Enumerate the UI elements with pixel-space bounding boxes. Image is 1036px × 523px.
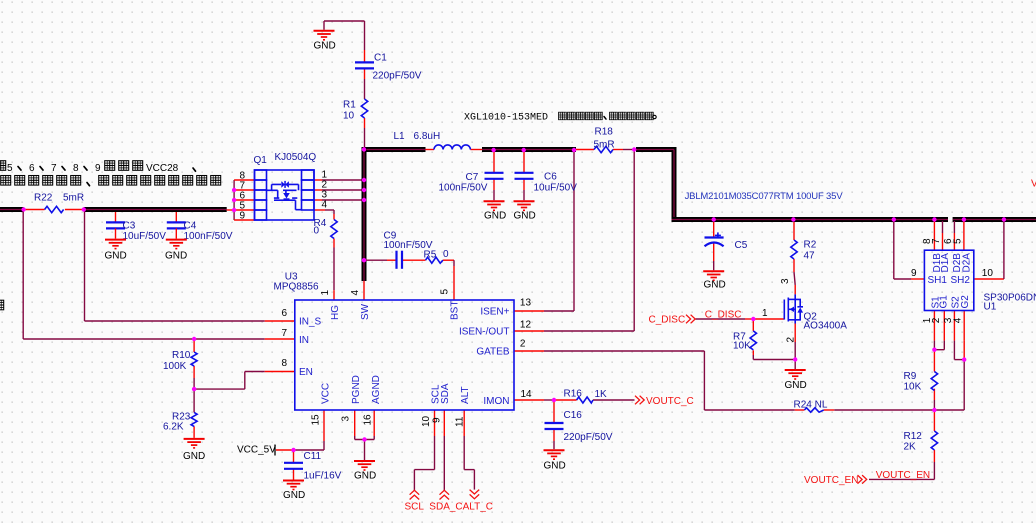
wire C_DISC to Q2 gate — [696, 318, 785, 320]
port VOUTC_EN — [804, 475, 867, 486]
svg-text:BST: BST — [449, 301, 460, 320]
wire C9 tap from SW bar to R5 to BST — [366, 260, 454, 300]
junction SW corner — [362, 147, 366, 151]
svg-text:R10: R10 — [172, 350, 191, 361]
wire R18 segment — [576, 149, 636, 151]
svg-text:47: 47 — [804, 251, 816, 262]
svg-text:2: 2 — [520, 338, 526, 349]
svg-text:10K: 10K — [733, 341, 751, 352]
thick bus bar output rail segment D1 — [672, 217, 949, 222]
thick bus bar VCC28 right segment to Q1 — [84, 207, 227, 212]
svg-text:3: 3 — [780, 278, 791, 284]
annotation XGL1010 note — [464, 112, 656, 123]
svg-text:GND: GND — [183, 451, 205, 462]
resistor R9 — [904, 371, 938, 393]
wire ISEN- sense — [515, 151, 635, 331]
junction PGND AGND — [362, 437, 366, 441]
svg-text:D1A: D1A — [940, 253, 951, 273]
port SCL — [405, 490, 425, 512]
svg-text:IN: IN — [299, 335, 309, 346]
svg-text:2K: 2K — [904, 442, 917, 453]
svg-text:9: 9 — [239, 211, 245, 222]
junction Q2 source — [793, 357, 797, 361]
svg-text:C7: C7 — [466, 172, 479, 183]
svg-text:10: 10 — [421, 415, 432, 427]
thick bus bar inductor output — [482, 147, 576, 152]
svg-text:ALT: ALT — [460, 386, 471, 404]
svg-text:2: 2 — [786, 337, 797, 343]
wire R10 leg and EN — [194, 339, 295, 389]
capacitor C3 — [106, 212, 166, 242]
svg-text:5: 5 — [440, 289, 451, 295]
svg-text:11: 11 — [455, 416, 466, 427]
thick bus bar after R18 with corner down — [636, 147, 677, 222]
svg-text:G2: G2 — [960, 295, 971, 309]
svg-text:D2A: D2A — [962, 253, 973, 273]
port VOUTC_C — [635, 396, 694, 407]
junction IMON C16 — [552, 398, 556, 402]
ground C4 — [165, 240, 187, 262]
capacitor C5 polarized — [705, 232, 748, 251]
ground R23 — [183, 439, 205, 462]
svg-text:C3: C3 — [123, 221, 136, 232]
svg-text:GATEB: GATEB — [476, 347, 509, 358]
svg-text:1K: 1K — [595, 389, 608, 400]
wire SCL — [414, 410, 434, 490]
svg-text:7: 7 — [51, 163, 57, 174]
svg-text:C16: C16 — [564, 410, 583, 421]
svg-text:IMON: IMON — [483, 396, 509, 407]
svg-text:ISEN+: ISEN+ — [480, 307, 509, 318]
svg-text:7: 7 — [281, 328, 287, 339]
wire ALT — [464, 410, 474, 490]
resistor R18 — [594, 127, 615, 153]
ground C16 — [544, 450, 566, 471]
svg-text:4: 4 — [952, 317, 963, 323]
wire IN from VCC28 — [23, 211, 295, 339]
resistor R10 — [163, 350, 197, 372]
wire GATEB to R24 net — [515, 351, 935, 410]
svg-text:7: 7 — [931, 238, 942, 244]
svg-text:C1: C1 — [374, 53, 387, 64]
wire C6 tap — [523, 152, 525, 200]
svg-text:R16: R16 — [564, 389, 583, 400]
svg-text:C6: C6 — [544, 172, 557, 183]
svg-text:1: 1 — [320, 290, 331, 296]
svg-text:VCC: VCC — [320, 383, 331, 404]
svg-text:R24 NL: R24 NL — [794, 400, 828, 411]
wire Q1 right pins 1 2 3 to SW bar — [314, 180, 362, 200]
svg-text:C11: C11 — [304, 451, 322, 462]
junction R10 bottom EN — [192, 387, 196, 391]
port C_DISC — [649, 315, 696, 326]
wire G2 down to R24 node — [934, 360, 964, 410]
wire R12 to VOUTC_EN — [869, 410, 934, 479]
svg-text:6: 6 — [29, 163, 35, 174]
svg-text:G1: G1 — [939, 295, 950, 309]
junction R9 R12 R24 node — [932, 408, 936, 412]
wire R23 leg — [193, 389, 195, 438]
wire Q1 pin4 to R4 to HG — [314, 210, 334, 300]
svg-text:VOUTC_EN: VOUTC_EN — [876, 470, 930, 481]
svg-text:SH1: SH1 — [928, 275, 948, 286]
wire VCC_5V to VCC pin — [276, 410, 324, 450]
svg-text:SW: SW — [360, 303, 371, 320]
svg-text:10: 10 — [982, 268, 994, 279]
wire SH2 — [974, 221, 1004, 279]
svg-text:IN_S: IN_S — [299, 317, 322, 328]
svg-text:5: 5 — [952, 238, 963, 244]
svg-text:10: 10 — [343, 111, 355, 122]
svg-text:U1: U1 — [984, 302, 997, 313]
wire R22 segment — [24, 209, 84, 211]
wire Q1 left pin stubs 8 7 6 5 9 — [234, 180, 254, 220]
resistor R7 — [733, 331, 757, 352]
svg-text:HG: HG — [330, 305, 341, 320]
svg-text:220pF/50V: 220pF/50V — [373, 71, 422, 82]
svg-text:6: 6 — [281, 308, 287, 319]
svg-text:V: V — [1031, 179, 1036, 190]
svg-text:SCL: SCL — [405, 502, 425, 513]
inductor L1 — [394, 131, 471, 150]
svg-text:GND: GND — [514, 211, 536, 222]
wire Q2 source to GND — [794, 324, 796, 370]
junctions on output rail — [712, 217, 716, 221]
svg-text:Q1: Q1 — [254, 155, 268, 166]
wire U1 top pins 8 7 6 5 — [934, 221, 964, 250]
svg-text:GND: GND — [105, 251, 127, 262]
svg-text:5: 5 — [7, 163, 13, 174]
svg-text:5mR: 5mR — [63, 193, 84, 204]
svg-text:R9: R9 — [904, 371, 917, 382]
svg-text:GND: GND — [544, 461, 566, 472]
svg-text:4: 4 — [350, 290, 361, 296]
svg-text:10uF/50V: 10uF/50V — [534, 183, 578, 194]
junction VCC_5V C11 — [291, 448, 295, 452]
wire C7 tap — [493, 152, 495, 200]
junction U1 S1 G1 — [932, 348, 936, 352]
svg-text:XGL1010-153MED: XGL1010-153MED — [464, 113, 548, 124]
ground C5 — [703, 271, 726, 290]
svg-text:GND: GND — [283, 490, 305, 501]
junction R10 top — [192, 337, 196, 341]
power port VCC_5V — [237, 445, 276, 456]
junction C9 tap on SW bar — [362, 258, 366, 262]
svg-text:10uF/50V: 10uF/50V — [123, 231, 167, 242]
svg-text:AGND: AGND — [371, 375, 382, 404]
junctions Q1 left tie — [232, 188, 236, 192]
ground C7 — [484, 201, 507, 221]
wire C1 bottom to R1 to SW bar — [364, 68, 366, 149]
svg-text:GND: GND — [704, 280, 726, 291]
wire R9 leg — [933, 350, 935, 410]
ground C11 — [283, 481, 305, 502]
wire L1 stubs — [426, 149, 483, 151]
svg-text:9: 9 — [432, 417, 443, 423]
svg-text:GND: GND — [354, 471, 376, 482]
annotation chinese line1 VCC28 note — [0, 161, 196, 174]
capacitor C6 — [515, 172, 578, 194]
svg-text:100nF/50V: 100nF/50V — [184, 231, 233, 242]
svg-text:100nF/50V: 100nF/50V — [439, 183, 488, 194]
svg-text:6.8uH: 6.8uH — [414, 131, 441, 142]
junctions Q1 right rows on SW bar — [362, 178, 366, 182]
wire U1 S1 G1 tie — [934, 311, 944, 350]
resistor R22 — [34, 193, 84, 213]
svg-text:6.2K: 6.2K — [163, 422, 184, 433]
resistor R4 — [314, 218, 338, 239]
svg-text:1uF/16V: 1uF/16V — [304, 471, 342, 482]
svg-text:15: 15 — [311, 414, 322, 426]
svg-text:PGND: PGND — [351, 375, 362, 404]
capacitor C16 — [545, 410, 613, 443]
annotation chinese line2 copper note — [1, 176, 221, 186]
ground C6 — [514, 201, 536, 221]
wire SW bar to U3 SW pin — [363, 281, 365, 300]
svg-text:0: 0 — [314, 226, 320, 237]
svg-text:0: 0 — [443, 249, 449, 260]
thick bus bar output rail segment D2 — [953, 217, 1036, 222]
wire GND to C1 top — [324, 21, 365, 62]
svg-text:AO3400A: AO3400A — [804, 321, 848, 332]
svg-text:L1: L1 — [394, 131, 406, 142]
svg-text:13: 13 — [520, 298, 532, 309]
svg-text:GND: GND — [314, 41, 336, 52]
svg-text:1: 1 — [762, 308, 768, 319]
wire IMON to R16 to VOUTC_C — [515, 399, 635, 401]
capacitor C4 — [167, 212, 233, 242]
ground U3 PGND AGND — [354, 461, 376, 482]
svg-text:SDA: SDA — [440, 383, 451, 404]
wire bar end to Q1 pin5 — [227, 209, 236, 211]
wire C5 tap — [713, 222, 715, 270]
svg-text:9: 9 — [911, 268, 917, 279]
svg-text:12: 12 — [520, 319, 532, 330]
svg-text:R5: R5 — [424, 250, 437, 261]
ground Q2 — [785, 370, 807, 391]
wire R2 to Q2 drain — [794, 222, 795, 294]
ground top left — [314, 31, 336, 52]
svg-text:MPQ8856: MPQ8856 — [274, 281, 319, 292]
svg-text:C5: C5 — [735, 240, 748, 251]
port ALT and net SDA_CALT_C — [429, 490, 493, 513]
resistor R12 — [904, 431, 938, 453]
resistor R24 — [794, 400, 828, 413]
svg-text:R18: R18 — [595, 127, 614, 138]
resistor R16 — [564, 389, 608, 404]
svg-text:VCC_5V: VCC_5V — [237, 445, 276, 456]
capacitor C7 — [439, 172, 504, 194]
svg-text:VOUTC_C: VOUTC_C — [646, 396, 694, 407]
transistor Q1 KJ0504Q dual mosfet — [239, 152, 327, 222]
svg-text:VOUTC_EN: VOUTC_EN — [804, 475, 858, 486]
wire U1 S2 G2 tie — [954, 311, 964, 360]
ground C3 — [105, 240, 127, 262]
capacitor C11 — [284, 451, 342, 482]
wire Q1 left pin tie vertical — [233, 180, 235, 220]
svg-text:R12: R12 — [904, 431, 923, 442]
svg-text:R2: R2 — [804, 240, 817, 251]
wire C16 tap — [553, 400, 555, 449]
junction Q2 gate R7 — [751, 317, 755, 321]
svg-text:GND: GND — [484, 211, 506, 222]
svg-text:SH2: SH2 — [951, 275, 971, 286]
svg-text:JBLM2101M035C077RTM 100UF 35V: JBLM2101M035C077RTM 100UF 35V — [685, 191, 844, 202]
annotation chinese partial char left edge — [0, 300, 4, 310]
thick bus bar VCC28 left segment — [0, 207, 24, 212]
capacitor C9 — [384, 231, 433, 269]
svg-text:GND: GND — [785, 380, 807, 391]
svg-text:C_DISC: C_DISC — [649, 315, 686, 326]
resistor R5 — [424, 249, 450, 263]
capacitor C1 — [355, 53, 422, 82]
svg-text:R1: R1 — [343, 100, 356, 111]
svg-text:GND: GND — [165, 251, 187, 262]
junction U1 S2 G2 — [962, 357, 966, 361]
IC U3 MPQ8856 — [274, 271, 533, 427]
wire SDA — [443, 410, 445, 490]
junctions R22 on VCC28 bar — [21, 207, 25, 211]
resistor R2 — [791, 240, 817, 262]
svg-text:14: 14 — [521, 389, 533, 400]
wire ISEN+ sense — [515, 151, 575, 311]
svg-text:EN: EN — [299, 367, 313, 378]
transistor Q2 AO3400A — [762, 278, 847, 343]
svg-text:VCC28: VCC28 — [146, 163, 179, 174]
wire R7 leg — [753, 319, 795, 360]
svg-text:2: 2 — [931, 317, 942, 323]
svg-text:9: 9 — [95, 163, 101, 174]
svg-text:R22: R22 — [34, 193, 53, 204]
svg-text:ISEN-/OUT: ISEN-/OUT — [459, 327, 510, 338]
wire SH1 — [894, 221, 925, 279]
thick bus bar SW node horizontal — [362, 147, 426, 152]
port SDA — [440, 490, 450, 499]
svg-text:KJ0504Q: KJ0504Q — [275, 152, 317, 163]
svg-text:C_DISC: C_DISC — [705, 310, 742, 321]
svg-text:8: 8 — [73, 163, 79, 174]
svg-text:100K: 100K — [163, 361, 187, 372]
svg-text:4: 4 — [322, 200, 328, 211]
wire PGND AGND to GND — [355, 410, 375, 460]
svg-text:16: 16 — [363, 414, 374, 426]
IC U1 SP30P06DN dual pmos — [911, 238, 1036, 323]
thick bus bar SW node vertical — [362, 147, 367, 281]
svg-text:SDA_CALT_C: SDA_CALT_C — [429, 502, 493, 513]
wire VOUTC_EN port lead — [868, 478, 870, 480]
svg-text:5mR: 5mR — [594, 140, 615, 151]
wire C11 tap — [293, 450, 295, 480]
svg-text:220pF/50V: 220pF/50V — [564, 432, 613, 443]
junctions on inductor output bar — [491, 148, 495, 152]
svg-text:3: 3 — [341, 416, 352, 422]
resistor R23 — [163, 412, 197, 433]
svg-text:10K: 10K — [904, 382, 922, 393]
wire IN_S from VCC28 — [85, 211, 295, 321]
resistor R1 — [343, 99, 368, 122]
svg-text:C4: C4 — [184, 221, 197, 232]
svg-text:8: 8 — [281, 358, 287, 369]
